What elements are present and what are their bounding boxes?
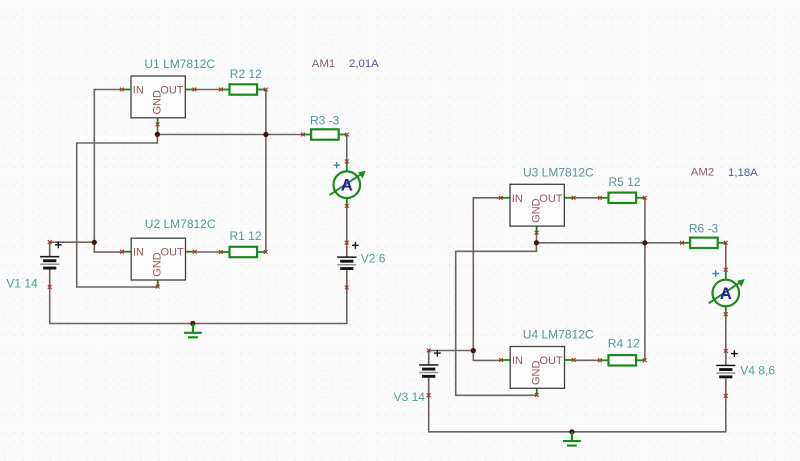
- node N5 junction: [471, 348, 476, 353]
- svg-text:V1 14: V1 14: [6, 277, 38, 291]
- battery V3: plate long thin: [419, 364, 438, 366]
- battery V4: top lead: [725, 351, 727, 366]
- svg-text:AM2: AM2: [691, 167, 714, 179]
- node N6 junction: [642, 240, 647, 245]
- ammeter AM2: body circle: [713, 280, 740, 307]
- ammeter AM2: top pin stub: [725, 270, 727, 280]
- resistor R6: body: [690, 238, 718, 248]
- svg-text:GND: GND: [531, 361, 543, 386]
- resistor R2: right pin stub: [257, 89, 266, 91]
- battery V4: plate long thin: [716, 365, 735, 367]
- resistor R3: left pin stub: [303, 134, 311, 136]
- resistor R6: left pin stub: [682, 242, 690, 244]
- resistor R1: right pin stub: [257, 251, 266, 253]
- resistor R1: left pin stub: [221, 251, 230, 253]
- svg-text:1,18A: 1,18A: [728, 167, 758, 179]
- battery V3: polarity plus sign: [434, 350, 441, 357]
- node N1 junction: [155, 132, 160, 137]
- svg-text:V4 8,6: V4 8,6: [740, 363, 775, 377]
- svg-text:AM1: AM1: [312, 58, 335, 70]
- svg-text:R3 -3: R3 -3: [310, 114, 340, 128]
- resistor R3: body: [311, 129, 339, 139]
- resistor R4: right pin stub: [636, 359, 645, 361]
- ammeter AM1: terminal markers: [345, 160, 349, 164]
- wire: ammeter AM2 to battery V4: [725, 314, 727, 351]
- resistor R4: left pin stub: [600, 359, 609, 361]
- resistor R1: body: [230, 247, 258, 257]
- voltage regulator U1: GND pin stub: [157, 118, 159, 125]
- svg-text:GND: GND: [152, 90, 164, 115]
- node N4 junction: [534, 240, 539, 245]
- wire: node N1 to resistor R3: [157, 134, 303, 136]
- wire: bottom return net V1 to V2: [50, 287, 347, 324]
- svg-text:R1 12: R1 12: [230, 229, 262, 243]
- wire: resistor R5 right down to resistor R4 right: [644, 198, 646, 360]
- wire: node N4 to resistor R6: [536, 242, 682, 244]
- battery V3: plate short thick lower: [422, 375, 435, 378]
- svg-text:IN: IN: [133, 247, 144, 259]
- resistor R4: pin markers: [598, 358, 602, 362]
- voltage regulator U1: IN pin stub: [122, 89, 131, 91]
- wire: node N5 to U4 IN: [473, 351, 501, 361]
- battery V4: terminal markers: [724, 349, 728, 353]
- resistor R5: body: [609, 193, 637, 203]
- ground GND2: ground symbol: [563, 432, 581, 446]
- battery V1: top lead: [49, 242, 51, 257]
- svg-text:R6 -3: R6 -3: [689, 221, 719, 235]
- svg-text:U4 LM7812C: U4 LM7812C: [523, 327, 594, 341]
- resistor R2: left pin stub: [221, 89, 230, 91]
- battery V2: plate short thick lower: [340, 267, 353, 270]
- voltage regulator U2: OUT pin stub: [186, 251, 195, 253]
- battery V2: plate long thin: [337, 256, 356, 258]
- resistor R3: pin markers: [301, 133, 305, 137]
- svg-text:R5 12: R5 12: [609, 175, 641, 189]
- battery V4: plate long thin (gray): [716, 372, 735, 373]
- voltage regulator U4: pin markers: [499, 358, 503, 362]
- node N2 junction: [92, 240, 97, 245]
- battery V1: plate long thin (gray): [40, 264, 59, 265]
- ammeter AM1: top pin stub: [346, 161, 348, 171]
- wire: U1 IN up-left to node N2: [94, 90, 122, 243]
- wire: U4 OUT to resistor R4: [573, 359, 600, 361]
- ammeter AM2: arrow: [709, 282, 742, 304]
- battery V2: polarity plus sign: [352, 242, 359, 249]
- voltage regulator U4: GND pin stub: [536, 388, 538, 395]
- resistor R2: pin markers: [219, 88, 223, 92]
- battery V3: top lead: [428, 350, 430, 365]
- resistor R6: right pin stub: [718, 242, 726, 244]
- wire: node N2 to U2 IN: [94, 242, 122, 252]
- wire: U1 GND to node N1: [157, 124, 159, 134]
- svg-text:GND: GND: [531, 198, 543, 223]
- wire: battery V1 plus to node N2: [50, 241, 95, 243]
- ammeter AM1: bottom pin stub: [346, 198, 348, 206]
- battery V1: plate short thick: [43, 259, 56, 262]
- battery V4: plate short thick: [719, 368, 732, 371]
- ammeter AM2: bottom pin stub: [725, 306, 727, 314]
- voltage regulator U3: OUT pin stub: [564, 197, 573, 199]
- battery V2: terminal markers: [345, 241, 349, 245]
- ammeter AM1: body circle: [334, 171, 361, 198]
- voltage regulator U4: OUT pin stub: [565, 359, 574, 361]
- wire: bottom return net V3 to V4: [429, 395, 726, 432]
- wire: U1 OUT to resistor R2: [193, 89, 221, 91]
- node N3 junction: [263, 132, 268, 137]
- svg-text:IN: IN: [133, 85, 144, 97]
- ground GND2: junction dot: [569, 429, 574, 434]
- svg-text:A: A: [341, 177, 353, 195]
- svg-text:OUT: OUT: [539, 193, 563, 205]
- ammeter AM1: polarity plus sign: [334, 162, 340, 168]
- resistor R4: body: [609, 355, 637, 365]
- svg-text:A: A: [720, 285, 732, 303]
- voltage regulator U1: pin markers: [120, 88, 124, 92]
- voltage regulator U1: body: [131, 76, 185, 118]
- wire: battery V3 plus to node N5: [429, 350, 474, 352]
- wire: resistor R2 right down to resistor R1 right: [265, 90, 267, 253]
- ground GND1: junction dot: [190, 321, 195, 326]
- battery V3: plate long thin (gray): [419, 372, 438, 373]
- ammeter AM2: polarity plus sign: [713, 270, 719, 276]
- battery V3: plate short thick: [422, 368, 435, 371]
- svg-text:IN: IN: [512, 193, 523, 205]
- voltage regulator U2: GND pin stub: [157, 280, 159, 287]
- battery V1: polarity plus sign: [55, 241, 62, 248]
- resistor R5: left pin stub: [600, 197, 609, 199]
- battery V1: terminal markers: [48, 240, 52, 244]
- battery V4: polarity plus sign: [731, 350, 738, 357]
- resistor R6: pin markers: [680, 241, 684, 245]
- voltage regulator U1: OUT pin stub: [185, 89, 194, 91]
- svg-text:IN: IN: [512, 355, 523, 367]
- voltage regulator U3: pin markers: [499, 196, 503, 200]
- svg-text:OUT: OUT: [160, 85, 184, 97]
- svg-text:OUT: OUT: [539, 355, 563, 367]
- battery V4: plate short thick lower: [719, 375, 732, 378]
- battery V2: top lead: [346, 243, 348, 258]
- svg-text:V2 6: V2 6: [361, 251, 386, 265]
- resistor R2: body: [230, 84, 258, 94]
- wire: U2 OUT to resistor R1: [194, 251, 221, 253]
- voltage regulator U3: GND pin stub: [536, 226, 538, 233]
- svg-text:V3 14: V3 14: [394, 390, 426, 404]
- battery V2: plate long thin (gray): [337, 264, 356, 265]
- battery V4: bottom lead: [725, 378, 727, 396]
- voltage regulator U2: IN pin stub: [122, 251, 131, 253]
- svg-text:R2 12: R2 12: [230, 67, 262, 81]
- svg-text:R4 12: R4 12: [608, 337, 640, 351]
- battery V1: plate long thin: [40, 256, 59, 258]
- svg-text:U2 LM7812C: U2 LM7812C: [145, 217, 216, 231]
- wire: resistor R3 to ammeter AM1: [346, 135, 348, 162]
- ammeter AM1: arrow: [330, 173, 363, 195]
- wire: GND rail U3 to U4: [456, 243, 537, 396]
- voltage regulator U2: body: [131, 238, 185, 280]
- battery V3: bottom lead: [428, 378, 430, 396]
- voltage regulator U3: IN pin stub: [501, 197, 510, 199]
- resistor R3: right pin stub: [339, 134, 347, 136]
- battery V1: plate short thick lower: [43, 267, 56, 270]
- ammeter AM2: terminal markers: [724, 268, 728, 272]
- wire: GND rail U1 to U2: [77, 134, 158, 287]
- svg-text:OUT: OUT: [160, 247, 184, 259]
- resistor R5: pin markers: [598, 196, 602, 200]
- wire: U3 OUT to resistor R5: [572, 197, 600, 199]
- wire: resistor R6 to ammeter AM2: [725, 243, 727, 270]
- wire: U3 IN up-left to node N5: [473, 198, 501, 351]
- svg-text:GND: GND: [152, 252, 164, 277]
- battery V1: bottom lead: [49, 270, 51, 288]
- svg-text:U1 LM7812C: U1 LM7812C: [144, 57, 215, 71]
- svg-text:U3 LM7812C: U3 LM7812C: [523, 166, 594, 180]
- voltage regulator U4: body: [510, 347, 564, 389]
- battery V2: plate short thick: [340, 260, 353, 263]
- voltage regulator U2: pin markers: [120, 250, 124, 254]
- ground GND1: ground symbol: [184, 324, 202, 338]
- resistor R5: right pin stub: [636, 197, 645, 199]
- wire: U3 GND to node N4: [536, 233, 538, 243]
- wire: ammeter AM1 to battery V2: [346, 206, 348, 243]
- resistor R1: pin markers: [219, 250, 223, 254]
- voltage regulator U3: body: [510, 184, 564, 226]
- voltage regulator U4: IN pin stub: [501, 359, 510, 361]
- battery V2: bottom lead: [346, 270, 348, 288]
- battery V3: terminal markers: [427, 349, 431, 353]
- svg-text:2,01A: 2,01A: [349, 58, 379, 70]
